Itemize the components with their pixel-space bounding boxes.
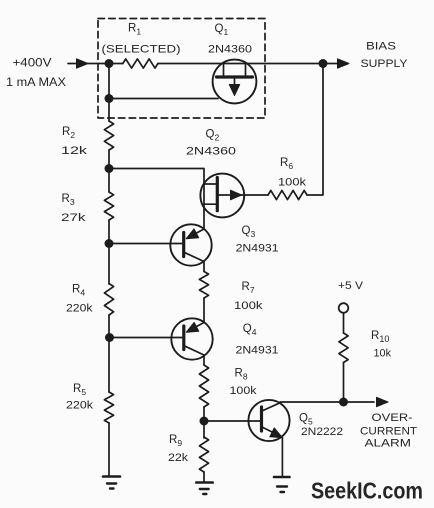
svg-text:220k: 220k <box>66 303 93 315</box>
svg-text:SeekIC.com: SeekIC.com <box>311 478 423 504</box>
wire left rail seg4 <box>108 315 110 392</box>
wire Q5 emitter to ground <box>281 438 283 476</box>
Q2 gate lead + arrow <box>219 194 268 196</box>
resistor R3 <box>104 192 113 220</box>
wire Q5 base <box>204 420 260 422</box>
wire left rail seg2 <box>108 150 110 192</box>
node alarm divider junction <box>200 417 209 426</box>
Q1 channel bar <box>217 75 253 78</box>
svg-text:+5 V: +5 V <box>338 280 364 292</box>
svg-text:220k: 220k <box>66 400 94 412</box>
transistor Q2 <box>200 174 244 218</box>
svg-text:Q5: Q5 <box>299 413 313 427</box>
Q2 channel bar <box>216 178 219 211</box>
wire R7 to Q4 emitter <box>203 298 205 323</box>
wire Q5 collector to alarm <box>280 401 374 403</box>
node BIAS junction <box>319 59 328 68</box>
svg-text:R1: R1 <box>128 23 141 37</box>
wire +400V input <box>68 63 123 65</box>
svg-text:R4: R4 <box>72 284 85 298</box>
resistor R5 <box>104 392 113 423</box>
svg-text:R10: R10 <box>371 330 389 344</box>
transistor Q3 <box>170 224 211 265</box>
resistor R8 <box>199 365 208 407</box>
svg-text:2N4360: 2N4360 <box>208 44 252 56</box>
resistor R6 <box>268 190 307 199</box>
svg-text:Q4: Q4 <box>243 323 257 337</box>
svg-text:CURRENT: CURRENT <box>360 426 417 438</box>
svg-text:Q1: Q1 <box>215 23 229 37</box>
wire left rail to ground <box>108 423 110 476</box>
BIAS SUPPLY arrow <box>323 63 338 65</box>
node R2/R3 junction <box>105 164 114 173</box>
Q1 gate arrow <box>234 79 236 87</box>
ground R9 <box>196 481 212 484</box>
Q4 collector lead <box>185 346 204 365</box>
wire feed to Q2 drain <box>109 169 204 230</box>
svg-text:R2: R2 <box>62 126 75 140</box>
svg-text:100k: 100k <box>230 385 258 397</box>
svg-text:Q2: Q2 <box>206 129 220 143</box>
svg-text:2N2222: 2N2222 <box>301 426 343 438</box>
svg-text:R9: R9 <box>169 434 182 448</box>
svg-text:+400V: +400V <box>13 58 52 70</box>
ground Q5 emitter <box>274 476 290 479</box>
svg-text:Q3: Q3 <box>242 225 256 239</box>
svg-text:R7: R7 <box>242 281 255 295</box>
svg-text:27k: 27k <box>61 212 86 224</box>
Q5 emitter lead <box>263 428 276 435</box>
transistor Q1 <box>213 60 257 104</box>
dashed selection box <box>98 19 265 119</box>
svg-text:R5: R5 <box>73 383 86 397</box>
resistor R10 <box>339 333 348 363</box>
svg-text:10k: 10k <box>374 348 392 360</box>
svg-text:R8: R8 <box>235 368 248 382</box>
alarm output arrowhead <box>377 397 389 406</box>
wire left rail top segment <box>108 64 110 122</box>
wire main rail to BIAS node <box>158 63 323 65</box>
svg-text:2N4931: 2N4931 <box>236 345 279 357</box>
Q1 source stub <box>223 64 225 76</box>
input arrowhead <box>77 59 89 68</box>
svg-text:100k: 100k <box>278 177 307 189</box>
wire Q1 gate line <box>109 98 218 100</box>
wire R10 to alarm node <box>343 363 345 403</box>
transistor Q5 <box>248 400 289 441</box>
wire left rail seg3 <box>108 220 110 284</box>
svg-text:ALARM: ALARM <box>365 438 412 450</box>
Q1 drain stub <box>245 64 247 76</box>
svg-text:R3: R3 <box>62 193 75 207</box>
svg-text:12k: 12k <box>61 145 88 157</box>
Q5 collector lead <box>263 403 280 411</box>
resistor R9 <box>199 437 208 472</box>
node gate junction <box>105 94 114 103</box>
svg-text:R6: R6 <box>280 157 293 171</box>
+5V terminal circle <box>339 303 349 313</box>
svg-text:2N4360: 2N4360 <box>186 146 236 158</box>
Q4 base bar <box>182 326 185 350</box>
resistor R2 <box>104 121 113 150</box>
node alarm output junction <box>339 398 348 407</box>
resistor R1 <box>123 59 158 68</box>
Q3 base bar <box>182 233 185 257</box>
svg-text:1 mA MAX: 1 mA MAX <box>6 77 66 89</box>
ground left rail <box>103 475 120 478</box>
wire +5V to R10 <box>343 313 345 333</box>
wire R6 to right rail <box>307 64 323 196</box>
svg-text:(SELECTED): (SELECTED) <box>102 44 181 56</box>
node R3/R4 junction <box>105 239 114 248</box>
Q3 emitter lead <box>190 229 204 237</box>
wire Q4 base <box>110 337 183 339</box>
transistor Q4 <box>171 318 212 359</box>
svg-text:SUPPLY: SUPPLY <box>361 58 409 70</box>
svg-text:BIAS: BIAS <box>366 41 396 53</box>
node R4/R5 junction <box>105 333 114 342</box>
Q4 emitter lead <box>190 323 204 331</box>
svg-text:OVER-: OVER- <box>372 412 413 424</box>
svg-text:22k: 22k <box>168 452 189 464</box>
wire R9 to ground <box>203 472 205 482</box>
resistor R4 <box>104 284 113 316</box>
svg-text:2N4931: 2N4931 <box>236 243 279 255</box>
Q2 drain stub <box>204 183 216 185</box>
Q5 base bar <box>260 407 263 431</box>
wire Q3 base <box>109 243 182 245</box>
resistor R7 <box>199 272 208 299</box>
Q2 source stub <box>204 203 216 205</box>
svg-text:100k: 100k <box>234 300 263 312</box>
wire R8 to node <box>203 407 205 438</box>
node main/left rail junction <box>105 59 114 68</box>
Q3 collector lead <box>185 253 204 272</box>
